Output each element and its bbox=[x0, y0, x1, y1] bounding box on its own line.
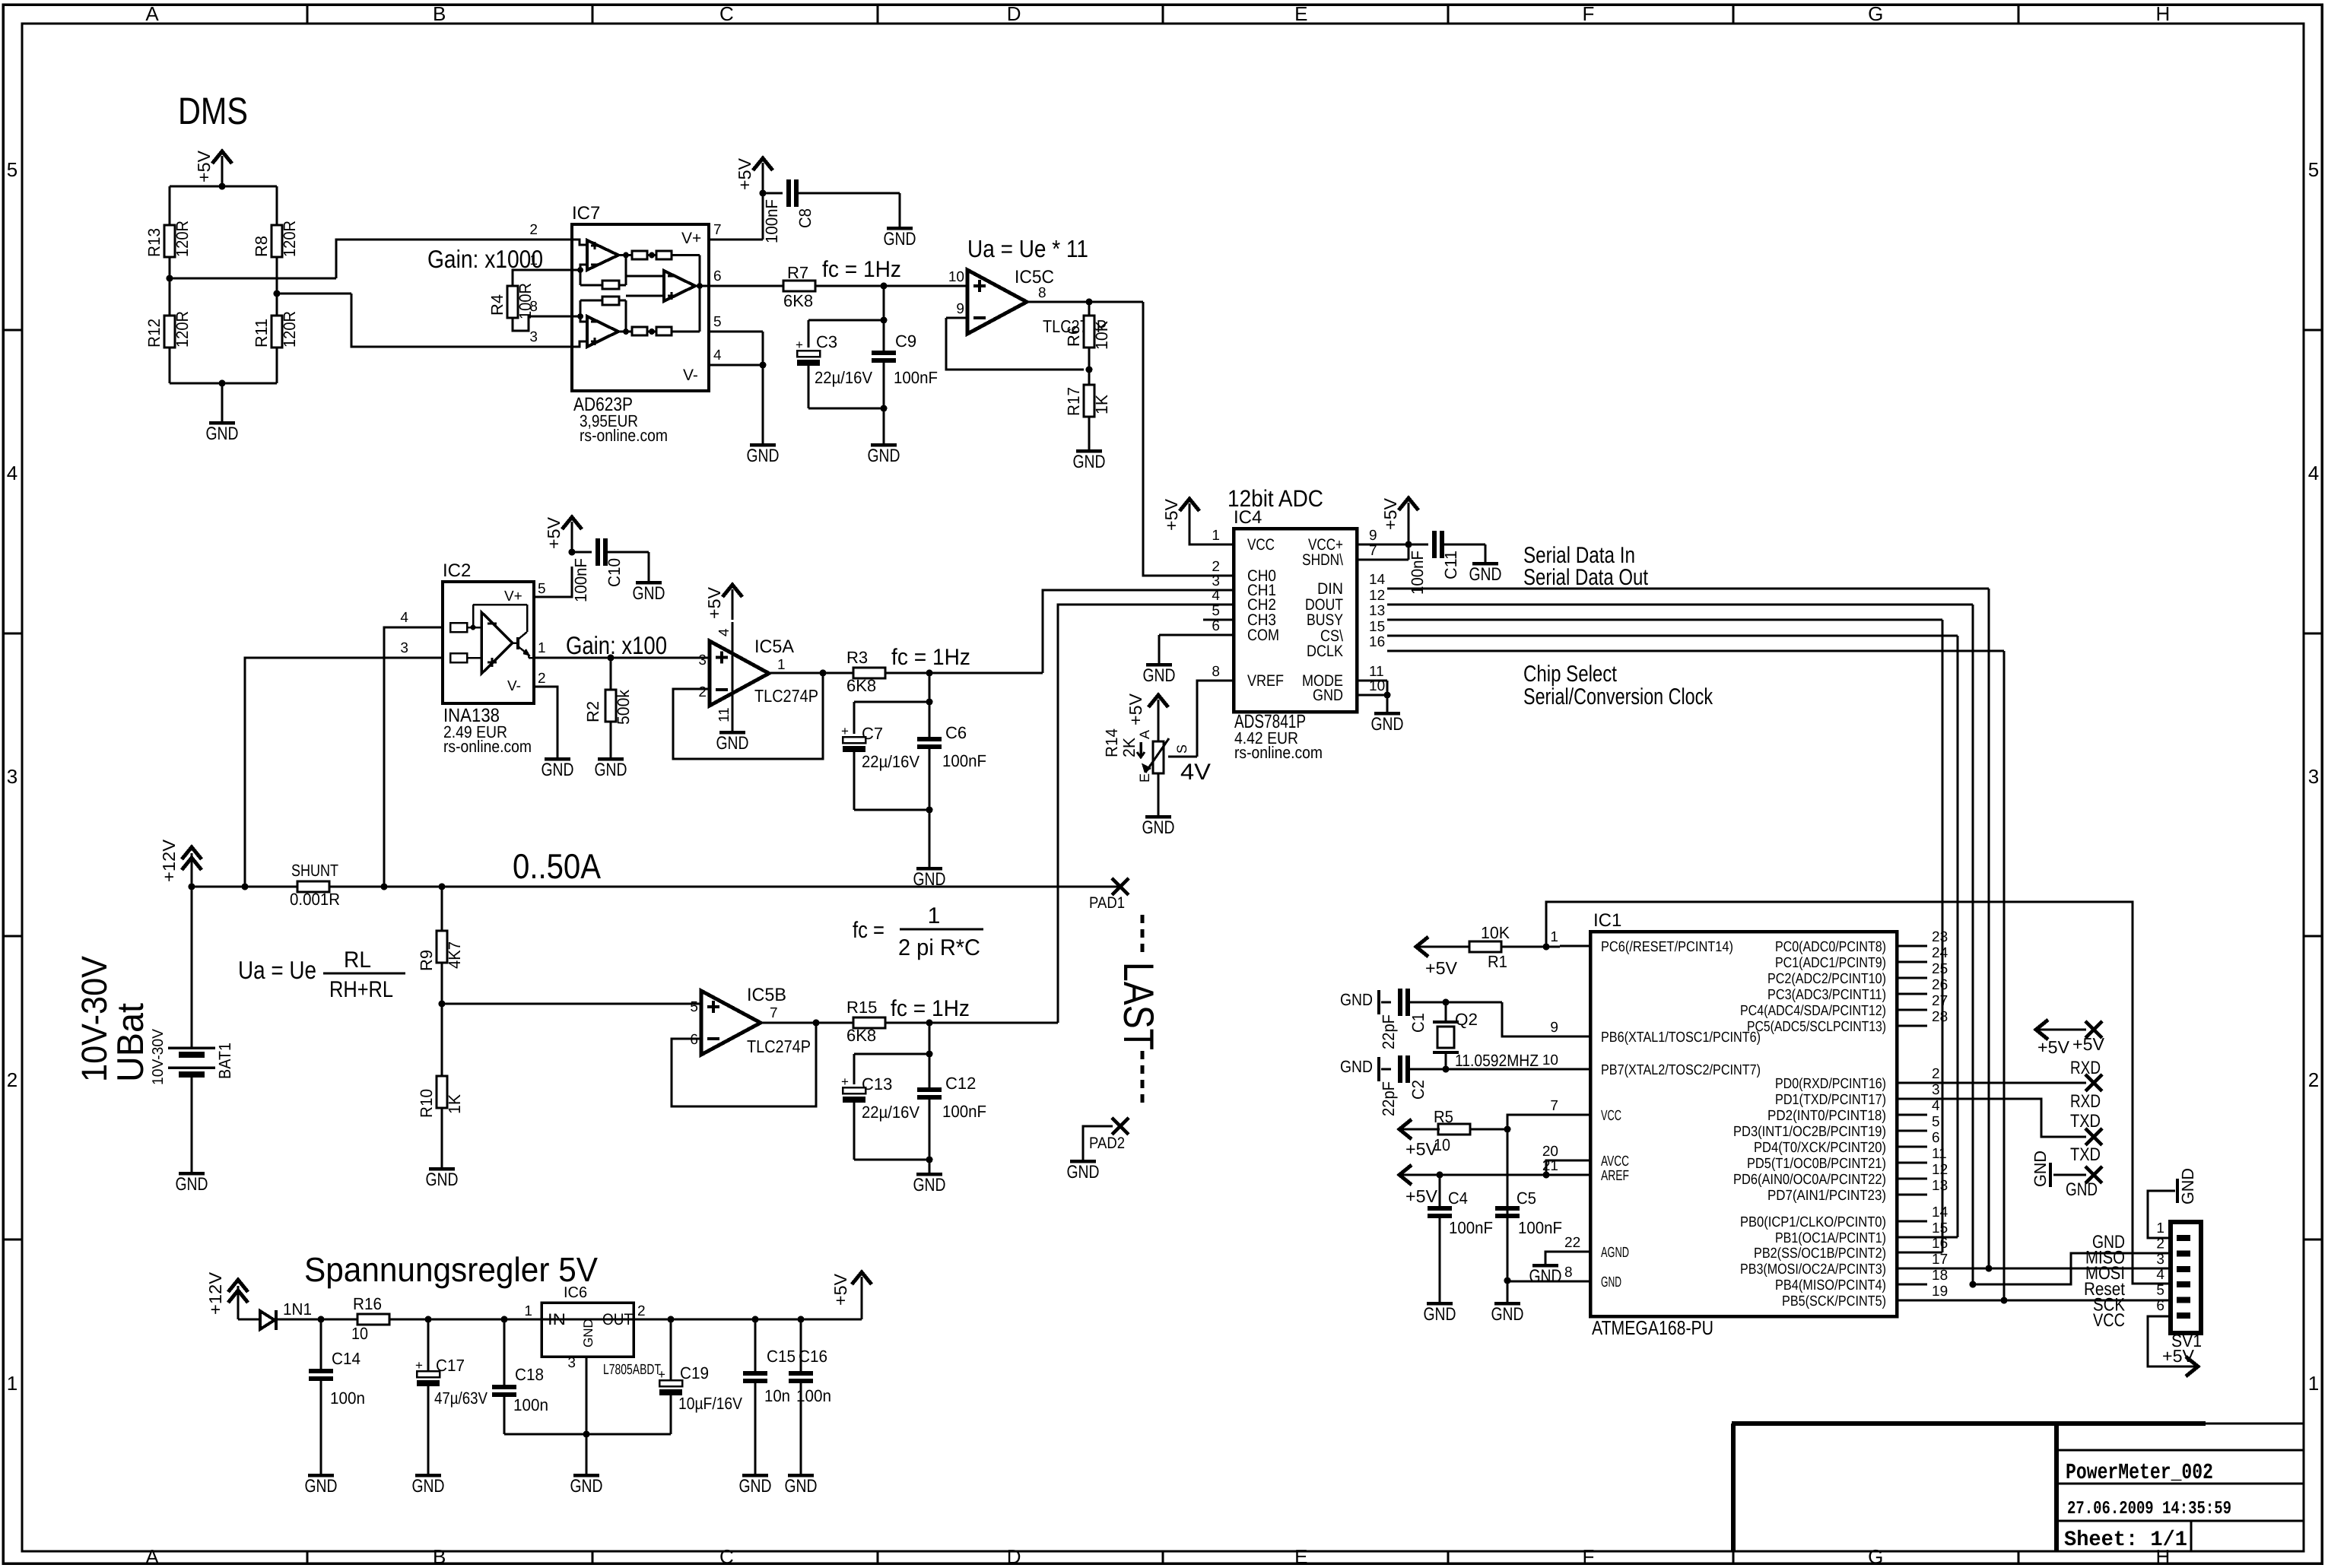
capacitor C5 100nF bbox=[1495, 1206, 1520, 1211]
capacitor C3 22u/16V electrolytic bbox=[797, 351, 820, 357]
svg-text:7: 7 bbox=[770, 1005, 778, 1021]
svg-text:IC5B: IC5B bbox=[747, 985, 786, 1005]
svg-text:22pF: 22pF bbox=[1379, 1014, 1398, 1049]
resistor R7 6K8 bbox=[783, 281, 815, 291]
label LAST (load, rotated) bbox=[1141, 915, 1145, 1103]
svg-text:12: 12 bbox=[1369, 588, 1385, 604]
svg-text:fc = 1Hz: fc = 1Hz bbox=[891, 996, 970, 1021]
svg-text:IC6: IC6 bbox=[564, 1284, 587, 1301]
svg-text:7: 7 bbox=[713, 222, 722, 238]
crystal Q2 11.0592MHZ bbox=[1445, 1002, 1447, 1022]
svg-text:+5V: +5V bbox=[194, 150, 214, 183]
svg-text:PC0(ADC0/PCINT8): PC0(ADC0/PCINT8) bbox=[1775, 939, 1886, 955]
svg-text:VCC: VCC bbox=[1247, 536, 1275, 554]
svg-text:22pF: 22pF bbox=[1379, 1081, 1398, 1116]
junction R9 top bbox=[439, 884, 446, 890]
svg-text:IC7: IC7 bbox=[572, 203, 600, 224]
IC1 pin 28 PC5(ADC5/SCLPCINT13) bbox=[1897, 1025, 1927, 1027]
IC7 pin 8 bbox=[542, 316, 572, 318]
svg-text:13: 13 bbox=[1369, 603, 1385, 619]
IC1 pin 17 PB3(MOSI/OC2A/PCINT3) bbox=[1897, 1268, 1927, 1270]
wire R17 to ground bbox=[1088, 417, 1091, 451]
IC2 internal wires bbox=[467, 627, 473, 629]
ADC pin 6 COM bbox=[1159, 634, 1234, 636]
svg-text:5: 5 bbox=[1932, 1114, 1940, 1130]
svg-text:IC5A: IC5A bbox=[754, 636, 794, 657]
wire bridge mid rails bbox=[169, 257, 171, 316]
IC1 pin 10 PB7(XTAL2/TOSC2/PCINT7) bbox=[1560, 1068, 1590, 1071]
resistor R10 1K bbox=[437, 1076, 447, 1108]
svg-text:+5V: +5V bbox=[544, 516, 564, 549]
power bus wire 0..50A bbox=[192, 886, 1120, 888]
wire IC5A power bbox=[732, 622, 734, 643]
ground (C17) bbox=[415, 1474, 441, 1478]
wire filter tap down (C12) bbox=[929, 1023, 931, 1054]
+5V arrow left (R5) bbox=[1399, 1128, 1440, 1131]
svg-text:DMS: DMS bbox=[178, 90, 248, 132]
svg-text:10: 10 bbox=[948, 269, 964, 285]
ground (C10) bbox=[636, 581, 662, 585]
IC1 pin 21 AREF bbox=[1560, 1174, 1590, 1176]
svg-text:120R: 120R bbox=[173, 221, 192, 257]
svg-text:C9: C9 bbox=[895, 332, 916, 351]
svg-text:10: 10 bbox=[351, 1324, 368, 1343]
resistor R11 bbox=[272, 316, 282, 348]
capacitor C19 10uF/16V electrolytic bbox=[670, 1319, 672, 1380]
wire IC5C -input feedback bbox=[946, 317, 967, 319]
svg-text:3: 3 bbox=[400, 640, 408, 656]
capacitor C17 47u/63V electrolytic bbox=[427, 1319, 430, 1371]
svg-text:100nF: 100nF bbox=[762, 199, 781, 243]
junction C10 tap bbox=[569, 549, 576, 556]
battery BAT1 bbox=[191, 887, 193, 1048]
svg-text:RL: RL bbox=[344, 947, 371, 973]
capacitor C7 22u/16V electrolytic bbox=[843, 737, 865, 743]
svg-text:C7: C7 bbox=[862, 724, 883, 743]
svg-text:10: 10 bbox=[1369, 678, 1385, 694]
svg-text:+5V: +5V bbox=[1126, 693, 1145, 725]
capacitor C16 100n bbox=[800, 1319, 802, 1371]
resistor R15 6K8 bbox=[853, 1017, 885, 1028]
svg-text:PAD2: PAD2 bbox=[1089, 1135, 1125, 1152]
svg-text:1: 1 bbox=[1212, 528, 1220, 544]
svg-text:D: D bbox=[1007, 1545, 1021, 1568]
svg-text:1: 1 bbox=[538, 640, 546, 656]
svg-text:6: 6 bbox=[713, 268, 722, 284]
svg-text:GND: GND bbox=[581, 1319, 595, 1347]
svg-text:100R: 100R bbox=[516, 283, 535, 319]
svg-text:25: 25 bbox=[1932, 961, 1948, 977]
svg-text:R2: R2 bbox=[583, 701, 602, 722]
capacitor C9 100nF bbox=[883, 320, 885, 351]
potentiometer R14 2K bbox=[1158, 700, 1160, 730]
svg-text:2K: 2K bbox=[1120, 738, 1139, 757]
wire IC5C output bbox=[1027, 301, 1143, 303]
IC7 internal gain resistors bbox=[602, 281, 619, 289]
svg-text:+5V: +5V bbox=[2072, 1034, 2105, 1054]
wire DOUT net (ADC to PB4/MISO) bbox=[1387, 604, 1973, 606]
wire R3 to CH1 riser bbox=[885, 672, 1043, 674]
svg-text:IC1: IC1 bbox=[1593, 910, 1621, 931]
ADC pin 2 CH0 bbox=[1203, 575, 1234, 577]
svg-text:11: 11 bbox=[1932, 1146, 1947, 1162]
IC2 pin 1 bbox=[534, 657, 710, 659]
ground symbol above SV1 rotated bbox=[2176, 1179, 2179, 1203]
svg-text:rs-online.com: rs-online.com bbox=[443, 737, 532, 756]
ground (R10) bbox=[429, 1167, 455, 1171]
+5V supply arrow (SV1) bbox=[2163, 1366, 2198, 1368]
svg-text:PD0(RXD/PCINT16): PD0(RXD/PCINT16) bbox=[1775, 1076, 1886, 1092]
junction bridge top bbox=[219, 183, 226, 190]
svg-text:GND: GND bbox=[747, 446, 780, 466]
svg-text:28: 28 bbox=[1932, 1009, 1948, 1025]
IC1 pin 13 PD7(AIN1/PCINT23) bbox=[1897, 1194, 1927, 1196]
wire C11 to ground bbox=[1444, 544, 1485, 546]
svg-text:6: 6 bbox=[1212, 618, 1220, 634]
junction crystal top bbox=[1443, 999, 1450, 1006]
svg-text:100nF: 100nF bbox=[571, 558, 590, 602]
svg-text:TXD: TXD bbox=[2070, 1111, 2101, 1132]
resistor R1 10K (reset pullup) bbox=[1469, 941, 1501, 952]
wire IC6 pin3 to ground rail bbox=[586, 1357, 588, 1434]
junction IC5B output bbox=[813, 1020, 820, 1027]
svg-text:GND: GND bbox=[1601, 1274, 1621, 1290]
ground (C15) bbox=[742, 1474, 768, 1478]
svg-text:+5V: +5V bbox=[1425, 958, 1458, 978]
junction IC6 ground bbox=[583, 1431, 590, 1438]
svg-text:C: C bbox=[719, 2, 734, 25]
+5V arrow left (R1) bbox=[1416, 946, 1469, 948]
svg-text:PB0(ICP1/CLKO/PCINT0): PB0(ICP1/CLKO/PCINT0) bbox=[1740, 1214, 1886, 1230]
capacitor C11 100nF bbox=[1409, 544, 1428, 546]
svg-text:PC5(ADC5/SCLPCINT13): PC5(ADC5/SCLPCINT13) bbox=[1747, 1019, 1886, 1035]
ground (C11) bbox=[1472, 562, 1498, 566]
svg-text:1K: 1K bbox=[1092, 395, 1111, 414]
junction C16 tap bbox=[798, 1316, 805, 1323]
svg-text:G: G bbox=[1868, 1545, 1883, 1568]
svg-text:GND: GND bbox=[206, 424, 239, 444]
svg-text:fc = 1Hz: fc = 1Hz bbox=[891, 645, 970, 670]
svg-text:3: 3 bbox=[1932, 1082, 1940, 1098]
svg-text:GND: GND bbox=[1529, 1266, 1562, 1287]
junction R6/R17 node bbox=[1088, 348, 1091, 385]
svg-text:100n: 100n bbox=[330, 1389, 365, 1408]
svg-text:7: 7 bbox=[1550, 1098, 1558, 1114]
junction IC2 output / R2 bbox=[608, 655, 615, 662]
instrumentation amplifier IC7 AD623P body bbox=[572, 224, 709, 391]
IC1 pin 19 PB5(SCK/PCINT5) bbox=[1897, 1300, 1927, 1302]
IC7 pin 4 bbox=[709, 364, 763, 367]
ground (IC6) bbox=[573, 1474, 599, 1478]
svg-text:AVCC: AVCC bbox=[1601, 1154, 1629, 1170]
junction R15 output bbox=[926, 1020, 933, 1027]
svg-text:V-: V- bbox=[683, 367, 698, 384]
svg-text:4V: 4V bbox=[1180, 760, 1211, 785]
junction R7 output bbox=[881, 283, 888, 290]
svg-text:2: 2 bbox=[2308, 1068, 2319, 1091]
wire CH1 riser bbox=[1043, 590, 1203, 673]
resistor R3 6K8 bbox=[853, 668, 885, 678]
svg-text:11.0592MHZ: 11.0592MHZ bbox=[1455, 1051, 1539, 1070]
svg-text:GND: GND bbox=[2031, 1151, 2050, 1187]
svg-text:PB2(SS/OC1B/PCINT2): PB2(SS/OC1B/PCINT2) bbox=[1754, 1246, 1886, 1262]
wire IC7 pin6 to R7 bbox=[763, 285, 783, 287]
+5V supply arrow (bridge) bbox=[221, 156, 224, 186]
junction shunt right tap bbox=[381, 884, 388, 890]
IC1 pin 18 PB4(MISO/PCINT4) bbox=[1897, 1284, 1927, 1286]
svg-text:2 pi R*C: 2 pi R*C bbox=[898, 935, 980, 960]
wire SCK to SV1 pin5 bbox=[1927, 1300, 2171, 1302]
svg-text:5: 5 bbox=[1212, 603, 1220, 619]
svg-text:DCLK: DCLK bbox=[1307, 643, 1343, 660]
svg-text:C: C bbox=[719, 1545, 734, 1568]
IC1 pin 23 PC0(ADC0/PCINT8) bbox=[1897, 945, 1927, 947]
IC7 internal feedback resistors lower bbox=[632, 327, 647, 335]
junction C6 bottom bbox=[926, 807, 933, 814]
wire to ground (bridge) bbox=[221, 383, 224, 423]
wire R4 to IC7 pins 1 and 8 bbox=[513, 270, 542, 286]
svg-text:fc = 1Hz: fc = 1Hz bbox=[822, 257, 901, 282]
junction C12 bottom bbox=[926, 1157, 933, 1163]
svg-text:R3: R3 bbox=[846, 648, 868, 667]
svg-text:14: 14 bbox=[1369, 572, 1386, 588]
svg-text:IC2: IC2 bbox=[443, 560, 471, 581]
svg-text:+12V: +12V bbox=[159, 839, 179, 882]
title block outline bbox=[1732, 1421, 2206, 1426]
frame column tick marks bbox=[306, 5, 309, 24]
wire IC5A output to R3 bbox=[770, 672, 853, 674]
svg-text:1: 1 bbox=[524, 1303, 532, 1319]
svg-text:PB5(SCK/PCINT5): PB5(SCK/PCINT5) bbox=[1782, 1293, 1886, 1309]
svg-text:D: D bbox=[1007, 2, 1021, 25]
junction C13 loop top bbox=[926, 1051, 933, 1058]
svg-text:100nF: 100nF bbox=[942, 1102, 986, 1121]
svg-text:6: 6 bbox=[1932, 1130, 1940, 1146]
svg-text:PB1(OC1A/PCINT1): PB1(OC1A/PCINT1) bbox=[1775, 1230, 1886, 1246]
capacitor C4 100nF bbox=[1439, 1175, 1441, 1206]
svg-text:A: A bbox=[145, 2, 159, 25]
svg-text:8: 8 bbox=[1038, 285, 1046, 301]
svg-text:3: 3 bbox=[529, 329, 538, 345]
svg-text:GND: GND bbox=[1142, 817, 1175, 838]
svg-text:F: F bbox=[1583, 1545, 1595, 1568]
IC7 pin 2 bbox=[542, 239, 572, 241]
IC1 pin 16 PB2(SS/OC1B/PCINT2) bbox=[1897, 1252, 1927, 1254]
IC2 pin 2 bbox=[534, 687, 557, 759]
wire IC5C output to ADC CH0 bbox=[1143, 302, 1203, 576]
svg-text:GND: GND bbox=[426, 1170, 459, 1190]
svg-text:2: 2 bbox=[1212, 559, 1220, 575]
svg-text:1: 1 bbox=[2156, 1220, 2164, 1236]
svg-text:5: 5 bbox=[690, 999, 698, 1015]
capacitor C8 100nF bbox=[763, 192, 783, 195]
svg-text:1N1: 1N1 bbox=[283, 1300, 312, 1319]
svg-text:UBat: UBat bbox=[110, 1003, 151, 1082]
svg-text:+12V: +12V bbox=[205, 1271, 225, 1315]
junction C19 tap bbox=[668, 1316, 675, 1323]
svg-text:3: 3 bbox=[2156, 1252, 2164, 1268]
svg-text:+5V: +5V bbox=[1405, 1186, 1438, 1206]
svg-text:100nF: 100nF bbox=[1518, 1218, 1562, 1237]
svg-text:B: B bbox=[433, 1545, 446, 1568]
IC1 pin 11 PD5(T1/OC0B/PCINT21) bbox=[1897, 1162, 1927, 1164]
svg-text:5: 5 bbox=[538, 581, 546, 597]
svg-text:TXD: TXD bbox=[2070, 1144, 2101, 1165]
svg-text:C15: C15 bbox=[767, 1347, 796, 1366]
svg-text:PowerMeter_002: PowerMeter_002 bbox=[2066, 1460, 2213, 1485]
microcontroller IC1 ATMEGA168-PU body bbox=[1590, 932, 1897, 1316]
svg-text:C4: C4 bbox=[1448, 1189, 1468, 1208]
svg-text:C2: C2 bbox=[1409, 1080, 1428, 1100]
svg-text:100n: 100n bbox=[796, 1386, 831, 1405]
svg-text:R9: R9 bbox=[417, 950, 436, 971]
svg-text:GND: GND bbox=[2178, 1168, 2197, 1205]
wire IC5A pin11 to ground bbox=[732, 706, 734, 732]
IC2 internal op-amp bbox=[481, 612, 513, 674]
junction AREF/AVCC bbox=[1543, 1172, 1550, 1179]
wire R2 to ground bbox=[610, 722, 612, 759]
svg-text:11: 11 bbox=[1369, 664, 1384, 680]
svg-text:C16: C16 bbox=[799, 1347, 827, 1366]
IC2 internal transistor bbox=[516, 637, 519, 649]
junction battery top bbox=[189, 884, 195, 890]
svg-text:10n: 10n bbox=[764, 1386, 790, 1405]
junction bridge mid right bbox=[274, 290, 281, 297]
connector SV1 body bbox=[2171, 1222, 2201, 1333]
wire R14 wiper to ADC VREF bbox=[1168, 756, 1197, 758]
svg-text:C18: C18 bbox=[515, 1365, 544, 1384]
svg-text:GND: GND bbox=[1143, 665, 1176, 686]
svg-text:+: + bbox=[415, 1358, 423, 1373]
svg-text:4: 4 bbox=[716, 628, 732, 636]
svg-text:4: 4 bbox=[2156, 1267, 2164, 1283]
ground (IC2 V-) bbox=[545, 757, 570, 761]
svg-text:H: H bbox=[2156, 2, 2171, 25]
ground (C4) bbox=[1427, 1302, 1453, 1306]
svg-text:PAD1: PAD1 bbox=[1089, 894, 1125, 912]
wire C10 to ground bbox=[608, 551, 649, 554]
svg-text:A: A bbox=[1137, 730, 1152, 739]
IC1 pin 1 PC6(/RESET/PCINT14) bbox=[1560, 945, 1590, 947]
svg-text:100n: 100n bbox=[513, 1395, 548, 1414]
+5V supply arrow (regulator out) bbox=[861, 1277, 863, 1319]
svg-text:E: E bbox=[1294, 1545, 1307, 1568]
frame row tick marks bbox=[3, 329, 22, 332]
svg-text:GND: GND bbox=[633, 583, 665, 604]
ADC right pin 9 VCC+ bbox=[1357, 544, 1409, 546]
wire GND net with X pin bbox=[2053, 1174, 2086, 1176]
svg-text:15: 15 bbox=[1369, 619, 1385, 635]
svg-text:Ua = Ue * 11: Ua = Ue * 11 bbox=[967, 235, 1088, 262]
svg-text:1K: 1K bbox=[445, 1094, 464, 1114]
svg-text:R11: R11 bbox=[252, 319, 271, 348]
pad PAD2 (load -) bbox=[1112, 1118, 1129, 1135]
svg-text:GND: GND bbox=[305, 1476, 338, 1497]
IC1 pin 22 AGND bbox=[1560, 1251, 1590, 1253]
svg-text:PD2(INT0/PCINT18): PD2(INT0/PCINT18) bbox=[1767, 1108, 1886, 1124]
ground (C6/C7) bbox=[916, 867, 942, 871]
junction C18 tap bbox=[501, 1316, 508, 1323]
ADC right pin 7 SHDN bbox=[1357, 559, 1409, 561]
IC1 pin 9 PB6(XTAL1/TOSC1/PCINT6) bbox=[1560, 1036, 1590, 1038]
IC7 pin 5 bbox=[709, 331, 763, 333]
resistor R12 bbox=[164, 316, 175, 348]
ADC pin 5 CH3 stub bbox=[1203, 619, 1234, 621]
svg-text:Serial Data Out: Serial Data Out bbox=[1523, 565, 1649, 590]
svg-text:ATMEGA168-PU: ATMEGA168-PU bbox=[1592, 1316, 1713, 1339]
svg-text:C8: C8 bbox=[796, 208, 815, 228]
svg-text:0..50A: 0..50A bbox=[513, 846, 601, 886]
svg-text:5: 5 bbox=[713, 314, 722, 330]
svg-text:L7805ABDT: L7805ABDT bbox=[603, 1362, 661, 1378]
IC1 pin 3 PD1(TXD/PCINT17) bbox=[1897, 1098, 1927, 1100]
svg-text:PD4(T0/XCK/PCINT20): PD4(T0/XCK/PCINT20) bbox=[1754, 1140, 1886, 1156]
svg-text:20: 20 bbox=[1542, 1144, 1558, 1160]
svg-text:PC4(ADC4/SDA/PCINT12): PC4(ADC4/SDA/PCINT12) bbox=[1740, 1003, 1886, 1019]
svg-text:2: 2 bbox=[2156, 1236, 2164, 1252]
svg-text:10: 10 bbox=[1542, 1052, 1558, 1068]
svg-text:S: S bbox=[1174, 744, 1189, 754]
svg-text:C17: C17 bbox=[436, 1356, 465, 1375]
svg-text:PD6(AIN0/OC0A/PCINT22): PD6(AIN0/OC0A/PCINT22) bbox=[1733, 1172, 1886, 1188]
svg-text:22µ/16V: 22µ/16V bbox=[862, 752, 919, 771]
wire C1 to XTAL1 bbox=[1410, 1001, 1502, 1004]
wire IC5B -input feedback loop bbox=[672, 1023, 816, 1106]
ground (R17) bbox=[1076, 449, 1102, 453]
svg-text:+: + bbox=[841, 724, 849, 738]
wire SV1 pin6 to +5V bbox=[2148, 1316, 2186, 1366]
ground (IC5A power) bbox=[719, 731, 745, 735]
junction bridge mid left bbox=[167, 275, 173, 282]
svg-text:PB3(MOSI/OC2A/PCINT3): PB3(MOSI/OC2A/PCINT3) bbox=[1740, 1262, 1886, 1278]
+5V supply arrow (ADC VCC) bbox=[1189, 503, 1191, 534]
svg-text:3: 3 bbox=[1212, 573, 1220, 589]
svg-text:GND: GND bbox=[542, 760, 574, 780]
+5V arrow left (AREF) bbox=[1399, 1174, 1434, 1176]
svg-text:C10: C10 bbox=[605, 558, 624, 587]
IC7 internal upper op-amp bbox=[587, 240, 618, 270]
junction C7 loop top bbox=[926, 699, 933, 706]
svg-text:6: 6 bbox=[2156, 1298, 2164, 1314]
svg-text:GND: GND bbox=[785, 1476, 818, 1497]
svg-text:10µF/16V: 10µF/16V bbox=[678, 1394, 742, 1413]
svg-text:16: 16 bbox=[1369, 634, 1385, 650]
capacitor C10 100nF bbox=[572, 551, 592, 554]
svg-text:C12: C12 bbox=[945, 1074, 976, 1093]
IC1 pin 5 PD3(INT1/OC2B/PCINT19) bbox=[1897, 1130, 1927, 1132]
svg-text:V+: V+ bbox=[504, 589, 522, 605]
junction crystal bottom bbox=[1443, 1066, 1450, 1073]
svg-text:GND: GND bbox=[595, 760, 627, 780]
wire CH2 riser bbox=[1058, 605, 1203, 1023]
wire R7 to IC5C +input bbox=[815, 285, 967, 287]
svg-text:RH+RL: RH+RL bbox=[329, 977, 393, 1002]
ground (C3/C9) bbox=[871, 443, 897, 447]
capacitor C14 100n bbox=[320, 1319, 322, 1369]
svg-text:rs-online.com: rs-online.com bbox=[580, 426, 668, 445]
svg-text:4: 4 bbox=[400, 610, 408, 626]
svg-text:V-: V- bbox=[507, 678, 521, 694]
svg-text:15: 15 bbox=[1932, 1220, 1948, 1236]
wire +5V to ADC pin1 bbox=[1189, 534, 1234, 544]
IC7 pin 1 bbox=[542, 269, 572, 271]
svg-text:R13: R13 bbox=[145, 228, 164, 257]
svg-text:12: 12 bbox=[1932, 1162, 1948, 1178]
svg-text:VCC: VCC bbox=[2093, 1310, 2125, 1331]
svg-text:2: 2 bbox=[538, 671, 546, 687]
junction divider mid bbox=[439, 1001, 446, 1008]
svg-text:120R: 120R bbox=[280, 311, 299, 348]
